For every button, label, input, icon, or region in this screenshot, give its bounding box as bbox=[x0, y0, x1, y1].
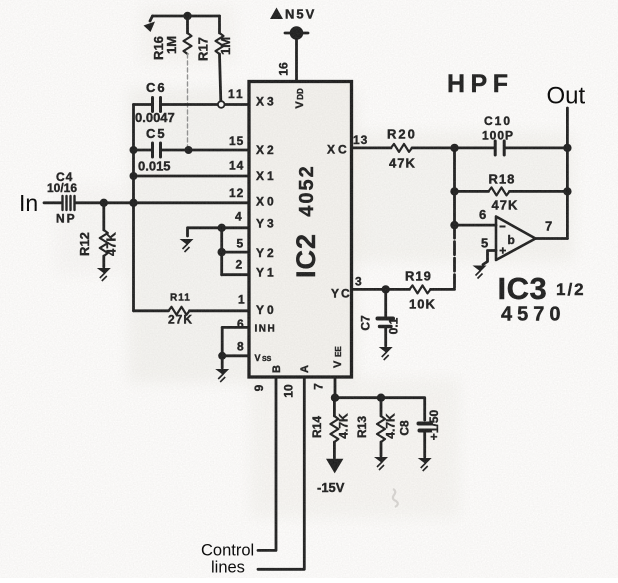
wire bottom rail bbox=[334, 398, 424, 420]
junction pin11 open circle bbox=[218, 101, 225, 108]
resistor R17 bbox=[218, 16, 221, 33]
junction Y2 bbox=[218, 248, 226, 256]
power node +15V bbox=[290, 26, 304, 40]
resistor R14 bbox=[333, 398, 336, 416]
capacitor C7 bbox=[384, 289, 387, 316]
junction node pin6 bbox=[450, 221, 458, 229]
wire R16 faint drop bbox=[187, 54, 189, 148]
ground R12 bbox=[97, 268, 111, 281]
junction Y3 bbox=[218, 224, 226, 232]
resistor R18 bbox=[489, 187, 510, 195]
ground op-amp pin5 bbox=[473, 266, 487, 279]
wire pin13 XC bbox=[352, 146, 392, 149]
junction out C10 bbox=[563, 144, 571, 152]
wire op-amp input pin6 bbox=[455, 224, 497, 227]
ground R13 bbox=[374, 457, 388, 470]
capacitor C6 bbox=[153, 98, 161, 112]
junction node R20 bbox=[450, 144, 458, 152]
wire Y3 pin4 bbox=[188, 228, 250, 236]
ground INH/VSS bbox=[215, 369, 229, 382]
wire op-amp output pin7 bbox=[536, 237, 568, 240]
power -15V arrow bbox=[326, 459, 343, 474]
wire pin11 / C6 line bbox=[134, 103, 152, 106]
wire pin3 YC bbox=[352, 288, 410, 291]
wire Y2 pin5 bbox=[222, 251, 249, 254]
op-amp plus bbox=[500, 247, 507, 254]
wire pin9 control bbox=[258, 377, 276, 550]
wire Out vertical bbox=[566, 108, 569, 239]
op-amp IC3 bbox=[496, 217, 536, 261]
capacitor C10 bbox=[495, 141, 504, 155]
wire R18 row bbox=[455, 190, 489, 193]
wire op-amp pin5 bbox=[483, 251, 496, 265]
junction Vee rail left bbox=[331, 394, 339, 402]
wire R17 to pin11 bbox=[220, 54, 221, 101]
resistor R13 bbox=[380, 398, 383, 416]
junction In R12 bbox=[100, 199, 108, 207]
arrow terminal top-left bbox=[150, 16, 153, 21]
junction Vee rail R13 bbox=[377, 394, 385, 402]
junction node R18 bbox=[450, 187, 458, 195]
ground C7 bbox=[379, 347, 393, 360]
resistor R16 bbox=[186, 16, 189, 33]
power +15V stem bbox=[295, 40, 298, 81]
wire node column bbox=[453, 148, 456, 225]
ground Y3 bbox=[180, 239, 194, 252]
text labels scanned bbox=[47, 7, 586, 496]
resistor R20 bbox=[391, 144, 412, 152]
wire pin10 control bbox=[258, 377, 304, 569]
wire Y-link vertical bbox=[220, 228, 223, 275]
wire In / pin12 X0 bbox=[44, 201, 249, 204]
wire INH-VSS-gnd vertical bbox=[221, 327, 224, 368]
junction VSS bbox=[218, 352, 226, 360]
scan shading bbox=[55, 5, 574, 518]
junction out R18 bbox=[563, 187, 571, 195]
capacitor C4 bbox=[63, 196, 75, 210]
wire top bias rail bbox=[153, 15, 220, 18]
junction In bus bbox=[129, 199, 137, 207]
wire VSS pin8 bbox=[222, 354, 249, 357]
junction YC C7 bbox=[382, 285, 390, 293]
op-amp minus bbox=[500, 226, 506, 228]
smudge mark bbox=[393, 489, 398, 507]
arrow terminal head top-left bbox=[144, 22, 156, 33]
power label triangle bbox=[270, 8, 283, 20]
resistor R12 bbox=[102, 203, 105, 230]
capacitor C5 bbox=[153, 143, 161, 157]
junction C5 left bbox=[130, 146, 138, 154]
wire INH pin6 bbox=[222, 326, 249, 329]
wire Y1 pin2 bbox=[222, 273, 249, 276]
junction X1 bbox=[130, 172, 138, 180]
resistor R19 bbox=[410, 285, 431, 293]
junction R16 top bbox=[183, 12, 191, 20]
resistor R11 bbox=[134, 309, 169, 312]
wire pin7 Vee bbox=[334, 377, 337, 398]
ground C8 bbox=[418, 458, 432, 471]
capacitor C8 bbox=[419, 422, 432, 426]
IC2 body bbox=[249, 82, 352, 378]
junction C5 right bbox=[185, 146, 193, 154]
wire pin15 / C5 line bbox=[134, 149, 250, 152]
wire pin14 X1 bbox=[134, 175, 250, 178]
wire left bus bbox=[132, 105, 135, 311]
